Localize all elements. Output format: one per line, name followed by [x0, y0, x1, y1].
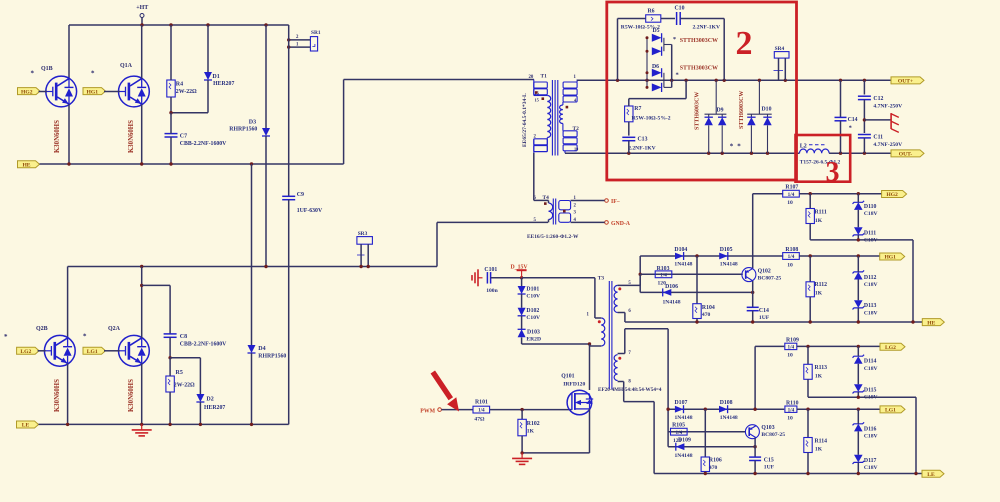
part label STTH6003CW (D10)	[739, 91, 745, 129]
wire	[360, 244, 362, 266]
wire	[38, 350, 46, 352]
wire	[141, 267, 143, 338]
junction	[67, 162, 70, 165]
svg-text:STTH3003CW: STTH3003CW	[680, 38, 718, 44]
svg-text:CBB-2.2NF-1600V: CBB-2.2NF-1600V	[180, 141, 227, 147]
transistor Q2B	[4, 326, 75, 366]
junction	[839, 79, 842, 82]
ground (Q101)	[512, 453, 532, 465]
net label OUT+	[891, 77, 924, 85]
diode D103	[518, 329, 541, 342]
capacitor C12	[858, 96, 902, 110]
net label HG2	[18, 88, 41, 96]
wire	[624, 313, 626, 323]
wire	[704, 472, 706, 474]
diode D1	[204, 72, 234, 87]
connector SR3	[357, 231, 373, 255]
svg-text:EF20-4MH-54:48:54-W54=4: EF20-4MH-54:48:54-W54=4	[598, 387, 662, 393]
wire	[40, 163, 344, 165]
zener D112	[853, 270, 878, 288]
svg-text:LG1: LG1	[87, 349, 98, 355]
svg-text:Q103: Q103	[761, 425, 774, 431]
svg-text:100n: 100n	[486, 288, 498, 294]
junction	[140, 423, 143, 426]
svg-text:R112: R112	[815, 282, 828, 288]
svg-text:LG1: LG1	[885, 408, 896, 414]
node IF-	[605, 199, 620, 206]
value R5W-10ohm-5%-2 (R7)	[632, 116, 671, 122]
wire	[436, 222, 438, 266]
junction	[199, 423, 202, 426]
wire	[640, 255, 753, 257]
svg-text:R101: R101	[475, 400, 488, 406]
diode D108	[719, 400, 738, 421]
wire	[251, 353, 253, 424]
svg-text:C7: C7	[180, 134, 187, 140]
junction	[863, 152, 866, 155]
zener D115	[853, 384, 878, 400]
power D_15V	[511, 264, 529, 278]
wire	[857, 280, 859, 301]
resistor R107	[783, 185, 800, 206]
wire	[807, 453, 809, 474]
wire	[623, 382, 625, 402]
svg-text:D104: D104	[674, 247, 687, 253]
svg-text:HG1: HG1	[87, 89, 99, 95]
wire	[170, 25, 172, 80]
svg-text:C10V: C10V	[526, 293, 540, 299]
resistor R105	[671, 423, 688, 444]
wire	[624, 401, 654, 403]
junction	[140, 265, 143, 268]
junction	[520, 451, 523, 454]
wire	[67, 364, 69, 425]
svg-text:*: *	[91, 70, 95, 78]
svg-text:4.7NF-250V: 4.7NF-250V	[873, 142, 902, 148]
svg-text:D116: D116	[864, 426, 877, 432]
junction	[715, 79, 718, 82]
ground (C101)	[472, 269, 483, 286]
resistor R106	[701, 457, 722, 472]
wire	[521, 436, 523, 453]
wire	[778, 58, 780, 80]
resistor R112	[806, 282, 827, 297]
junction	[751, 320, 754, 323]
wire	[571, 200, 605, 202]
svg-text:K30N60HS: K30N60HS	[54, 379, 61, 412]
junction	[809, 254, 812, 257]
wire	[857, 431, 859, 454]
transformer T1	[529, 74, 580, 156]
svg-text:D_15V: D_15V	[511, 264, 529, 270]
wire	[628, 99, 630, 106]
transistor Q1A	[91, 63, 149, 107]
part label K30N60HS (Q2B)	[54, 379, 61, 412]
wire	[522, 452, 589, 454]
svg-text:ER2D: ER2D	[526, 337, 541, 343]
connector SR4	[774, 46, 790, 71]
wire	[661, 18, 675, 20]
svg-text:1K: 1K	[815, 291, 823, 297]
wire	[491, 277, 522, 279]
junction	[627, 152, 630, 155]
svg-text:1K: 1K	[527, 429, 535, 435]
diode D109	[675, 438, 693, 460]
wire	[755, 345, 784, 347]
wire	[68, 266, 437, 268]
wire	[565, 152, 800, 154]
svg-text:D9: D9	[717, 108, 724, 114]
wire	[654, 473, 922, 475]
junction	[704, 472, 707, 475]
svg-text:*: *	[849, 125, 852, 132]
resistor R7	[625, 106, 642, 122]
capacitor C9	[282, 192, 323, 214]
junction	[809, 320, 812, 323]
wire	[807, 346, 809, 364]
junction	[359, 265, 362, 268]
svg-text:R106: R106	[709, 458, 722, 464]
wire	[343, 80, 345, 165]
svg-text:C15: C15	[764, 457, 774, 463]
wire	[170, 137, 172, 164]
junction	[750, 152, 753, 155]
junction	[287, 38, 290, 41]
junction (D6 anode top)	[646, 71, 649, 74]
junction	[140, 23, 143, 26]
wire	[577, 79, 891, 81]
wire	[68, 104, 70, 164]
svg-text:BC807-25: BC807-25	[761, 432, 785, 438]
junction	[751, 291, 754, 294]
junction	[695, 320, 698, 323]
svg-text:D108: D108	[720, 400, 733, 406]
wire	[864, 119, 891, 121]
resistor R104	[693, 304, 715, 319]
svg-text:HG1: HG1	[884, 255, 896, 261]
svg-text:SR4: SR4	[775, 46, 785, 52]
junction	[753, 472, 756, 475]
wire	[840, 80, 842, 117]
junction	[857, 238, 860, 241]
svg-text:IRFD120: IRFD120	[563, 382, 585, 388]
svg-text:D115: D115	[864, 387, 877, 393]
diode D4	[248, 345, 287, 359]
svg-text:+HT: +HT	[136, 5, 148, 11]
svg-text:C10V: C10V	[526, 315, 540, 321]
junction	[914, 472, 917, 475]
junction	[367, 265, 370, 268]
part label K30N60HS (Q1A)	[128, 120, 135, 153]
wire	[169, 285, 171, 334]
zener D114	[853, 355, 878, 372]
wire	[437, 221, 548, 223]
capacitor C14 (drive)	[747, 307, 770, 321]
svg-text:IF–: IF–	[611, 199, 620, 205]
svg-text:470: 470	[709, 465, 718, 471]
wire	[640, 291, 753, 293]
resistor R114	[804, 438, 827, 453]
svg-text:1/4: 1/4	[675, 430, 682, 436]
svg-text:Q2A: Q2A	[108, 326, 121, 332]
part label EF20-4MH-54:48:54-W54=4	[598, 387, 662, 393]
junction	[857, 192, 860, 195]
junction	[264, 23, 267, 26]
junction	[66, 423, 69, 426]
wire	[857, 235, 859, 240]
resistor R110	[785, 400, 799, 421]
wire	[857, 409, 859, 424]
wire	[521, 337, 523, 344]
wire	[752, 311, 754, 322]
svg-text:C10: C10	[675, 6, 685, 12]
svg-text:K30N60HS: K30N60HS	[128, 379, 135, 412]
svg-text:1N4148: 1N4148	[663, 300, 681, 306]
wire	[807, 379, 809, 397]
zener D113	[853, 300, 878, 316]
wire	[625, 321, 922, 323]
wire	[288, 200, 290, 425]
svg-text:R104: R104	[702, 305, 715, 311]
part label EE16/5-1:260-&#934;1.2-W	[527, 234, 579, 240]
wire	[668, 431, 746, 433]
wire	[207, 80, 209, 113]
wire	[169, 392, 171, 424]
svg-text:1UF-630V: 1UF-630V	[297, 208, 323, 214]
capacitor C10	[675, 6, 685, 26]
svg-text:10: 10	[787, 353, 793, 359]
svg-text:D5: D5	[653, 28, 660, 34]
svg-text:D3: D3	[249, 120, 256, 126]
svg-text:*: *	[83, 333, 87, 341]
wire	[809, 256, 811, 282]
junction	[684, 79, 687, 82]
svg-text:D105: D105	[720, 247, 733, 253]
junction	[806, 408, 809, 411]
svg-text:2.2NF-1KV: 2.2NF-1KV	[628, 146, 656, 152]
wire	[797, 408, 880, 410]
wire	[671, 45, 673, 88]
power +HT	[136, 5, 148, 25]
svg-text:HE: HE	[22, 163, 30, 169]
wire	[169, 358, 171, 376]
wire	[288, 25, 290, 196]
junction	[616, 79, 619, 82]
svg-text:K30N60HS: K30N60HS	[128, 120, 135, 153]
svg-text:PWM: PWM	[420, 408, 435, 414]
svg-text:15: 15	[535, 97, 539, 102]
svg-text:D117: D117	[864, 458, 877, 464]
svg-text:D101: D101	[526, 286, 539, 292]
wire	[667, 329, 669, 447]
wire	[522, 343, 590, 345]
svg-text:R105: R105	[672, 423, 685, 429]
annotation numeral 2	[736, 25, 753, 62]
diode D2	[196, 394, 225, 411]
junction	[857, 408, 860, 411]
svg-text:HE: HE	[927, 320, 935, 326]
net label LE (drive)	[922, 470, 944, 478]
transformer T4	[534, 195, 577, 225]
svg-text:T3: T3	[598, 275, 605, 281]
wire	[199, 358, 201, 394]
wire	[863, 80, 865, 94]
wire	[548, 220, 550, 223]
wire	[39, 91, 48, 93]
net label HG1	[83, 88, 106, 96]
wire	[639, 274, 641, 285]
wire	[653, 402, 655, 474]
wire	[69, 24, 289, 26]
node PWM	[420, 408, 441, 414]
svg-text:K30N60HS: K30N60HS	[54, 120, 61, 153]
capacitor C14	[835, 117, 858, 131]
wire	[857, 364, 859, 385]
junction	[863, 118, 866, 121]
net label LG2	[17, 347, 39, 355]
svg-text:R5W-10Ω-5%-2: R5W-10Ω-5%-2	[632, 116, 671, 122]
junction	[250, 162, 253, 165]
junction	[520, 276, 523, 279]
value R5W-10ohm-5%-2 (R6)	[621, 24, 660, 30]
diode D105	[719, 247, 738, 268]
wire	[857, 256, 859, 272]
wire	[753, 255, 784, 257]
resistor R111	[806, 209, 827, 225]
svg-text:R108: R108	[785, 247, 798, 253]
part label K30N60HS (Q2A)	[128, 379, 135, 412]
zener D101	[518, 286, 540, 299]
wire	[618, 312, 625, 314]
svg-text:C14: C14	[759, 308, 769, 314]
wire	[696, 256, 698, 304]
svg-text:BC807-25: BC807-25	[758, 275, 782, 281]
net label HE (drive)	[922, 319, 944, 327]
svg-text:LG2: LG2	[20, 349, 31, 355]
junction	[670, 79, 673, 82]
annotation box 2	[607, 2, 797, 180]
svg-text:1/4: 1/4	[660, 272, 667, 278]
net label OUT-	[891, 150, 924, 158]
junction	[168, 356, 171, 359]
junction	[857, 472, 860, 475]
wire	[754, 461, 756, 474]
junction	[704, 408, 707, 411]
net label LE	[17, 421, 39, 429]
wire	[522, 277, 595, 279]
junction	[753, 445, 756, 448]
svg-text:C11: C11	[873, 135, 883, 141]
resistor R4	[167, 80, 197, 97]
svg-text:3: 3	[826, 157, 840, 188]
net label LG1	[83, 347, 106, 355]
junction	[723, 79, 726, 82]
svg-text:D112: D112	[864, 275, 877, 281]
wire	[628, 122, 630, 136]
part label EE65/27-64.5-0.1*34-L	[522, 93, 528, 147]
svg-text:1K: 1K	[815, 373, 823, 379]
wire	[840, 121, 842, 153]
svg-text:47Ω: 47Ω	[474, 416, 485, 422]
wire	[618, 353, 625, 355]
wire	[857, 392, 859, 397]
junction	[911, 320, 914, 323]
junction	[666, 408, 669, 411]
junction	[857, 345, 860, 348]
junction	[287, 45, 290, 48]
wire	[797, 345, 880, 347]
wire	[857, 210, 859, 227]
svg-text:1/4: 1/4	[788, 254, 795, 260]
diode D9 (dual)	[705, 80, 727, 153]
junction	[140, 162, 143, 165]
svg-text:D114: D114	[864, 359, 877, 365]
svg-text:Q101: Q101	[561, 373, 574, 379]
transistor Q103	[745, 425, 785, 439]
wire	[170, 357, 200, 359]
part label STTH3003CW (D6)	[676, 65, 719, 78]
svg-text:D107: D107	[675, 400, 688, 406]
wire	[696, 319, 698, 323]
svg-text:T2: T2	[573, 126, 580, 132]
svg-text:STTH6003CW: STTH6003CW	[739, 91, 745, 129]
junction	[250, 423, 253, 426]
wire	[784, 58, 786, 80]
wire	[521, 278, 523, 286]
svg-text:R103: R103	[657, 266, 670, 272]
wire	[829, 152, 891, 154]
svg-text:2.2NF-1KV: 2.2NF-1KV	[693, 24, 721, 30]
wire	[141, 364, 143, 425]
svg-text:1K: 1K	[815, 218, 823, 224]
wire	[104, 91, 120, 93]
part label T157-26-6.5-phi1.2	[800, 159, 841, 165]
svg-text:OUT-: OUT-	[899, 152, 913, 158]
capacitor C8	[164, 334, 228, 348]
svg-text:C12: C12	[873, 96, 883, 102]
zener D117	[853, 455, 878, 471]
zener D110	[853, 201, 878, 217]
svg-text:D111: D111	[864, 230, 876, 236]
svg-text:C8: C8	[180, 334, 187, 340]
junction	[168, 423, 171, 426]
junction	[169, 23, 172, 26]
svg-text:R7: R7	[634, 106, 641, 112]
wire	[863, 138, 865, 153]
wire	[639, 256, 641, 292]
wire	[915, 397, 917, 473]
svg-text:GND-A: GND-A	[611, 221, 631, 227]
wire	[441, 409, 472, 411]
part label K30N60HS (Q1B)	[54, 120, 61, 153]
svg-text:1N4148: 1N4148	[720, 415, 738, 421]
wire	[618, 284, 641, 286]
wire	[104, 350, 120, 352]
wire	[912, 240, 914, 322]
svg-text:SR3: SR3	[358, 231, 368, 237]
svg-text:D102: D102	[526, 308, 539, 314]
wire	[68, 25, 70, 79]
svg-text:2: 2	[736, 25, 753, 62]
zener D102	[518, 308, 540, 321]
svg-text:1N4148: 1N4148	[674, 262, 692, 268]
svg-text:STTH6003CW: STTH6003CW	[695, 92, 701, 130]
svg-text:R110: R110	[786, 400, 799, 406]
svg-text:Q1A: Q1A	[120, 63, 133, 69]
diode D6 (dual)	[652, 64, 672, 92]
svg-text:HER207: HER207	[213, 81, 234, 87]
wire	[857, 462, 859, 473]
